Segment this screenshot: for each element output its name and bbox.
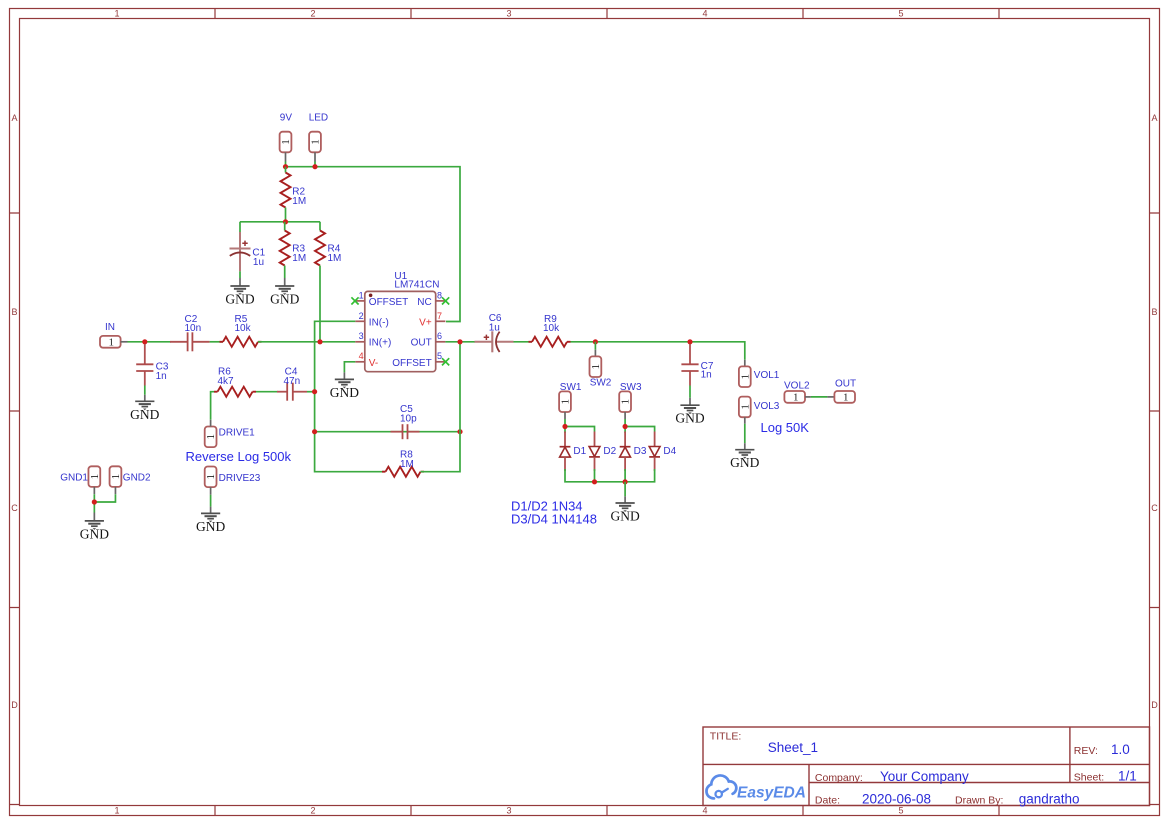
ground under GND1 xyxy=(80,521,109,542)
wire R9 to VOL1 corner xyxy=(571,342,745,360)
ground under R3 xyxy=(270,286,299,307)
svg-text:C: C xyxy=(11,503,18,513)
TITLE BLOCK xyxy=(703,727,1150,806)
wire C5 rail xyxy=(315,431,460,433)
resistor R5 10k xyxy=(220,314,262,347)
svg-text:1M: 1M xyxy=(400,459,414,470)
svg-text:Reverse Log 500k: Reverse Log 500k xyxy=(186,449,292,464)
wire bias rail C1 to R4 xyxy=(240,222,320,233)
svg-text:LED: LED xyxy=(309,112,328,123)
resistor R4 1M xyxy=(315,231,341,266)
connector GND1 xyxy=(60,466,101,494)
svg-text:B: B xyxy=(11,307,17,317)
capacitor C1 1u polarized xyxy=(230,232,266,271)
connector IN xyxy=(100,322,128,348)
svg-text:2020-06-08: 2020-06-08 xyxy=(862,791,931,806)
diode D4 1N4148 xyxy=(649,432,676,472)
junction GND1/GND2 xyxy=(92,499,97,504)
capacitor C6 1u polarized xyxy=(475,313,514,352)
connector OUT xyxy=(827,378,856,403)
svg-text:Date:: Date: xyxy=(815,794,840,806)
svg-text:DRIVE1: DRIVE1 xyxy=(219,427,256,438)
connector LED xyxy=(309,112,328,161)
svg-text:2: 2 xyxy=(310,806,315,816)
svg-text:4k7: 4k7 xyxy=(218,376,235,387)
svg-text:3: 3 xyxy=(359,331,364,341)
svg-text:D2: D2 xyxy=(603,446,616,457)
svg-text:10k: 10k xyxy=(543,323,560,334)
connector VOL1 xyxy=(739,360,780,387)
svg-text:Your Company: Your Company xyxy=(880,769,969,784)
svg-text:1: 1 xyxy=(114,806,119,816)
wire R6 to C4 xyxy=(256,391,278,393)
svg-text:1: 1 xyxy=(359,290,364,300)
wire C1 to ground xyxy=(239,271,241,286)
wire VOL3 to ground xyxy=(744,424,746,450)
svg-text:D3/D4 1N4148: D3/D4 1N4148 xyxy=(511,512,597,527)
svg-text:1M: 1M xyxy=(328,253,342,264)
capacitor C4 47n xyxy=(277,366,307,400)
svg-text:9V: 9V xyxy=(280,112,293,123)
svg-text:Drawn By:: Drawn By: xyxy=(955,794,1003,806)
junction IN node xyxy=(142,339,147,344)
ground under pin4 xyxy=(330,379,359,400)
connector SW3 xyxy=(619,382,642,419)
wire pin4 to ground xyxy=(344,362,355,380)
svg-text:1n: 1n xyxy=(701,370,712,381)
ground under VOL3 xyxy=(730,450,759,471)
diode D3 1N4148 xyxy=(620,432,647,472)
junction R4/IN+ xyxy=(317,339,322,344)
svg-text:Log 50K: Log 50K xyxy=(761,420,810,435)
svg-text:SW1: SW1 xyxy=(560,382,582,393)
svg-text:IN(+): IN(+) xyxy=(369,338,392,349)
resistor R8 1M xyxy=(382,450,424,477)
svg-text:OFFSET: OFFSET xyxy=(369,297,408,308)
svg-text:EasyEDA: EasyEDA xyxy=(737,785,806,802)
connector GND2 xyxy=(110,466,151,494)
svg-text:1M: 1M xyxy=(292,196,306,207)
no-connect X pin8 xyxy=(442,297,449,304)
wire 9V rail down through R2 xyxy=(285,167,287,173)
svg-text:10n: 10n xyxy=(185,323,202,334)
svg-text:DRIVE23: DRIVE23 xyxy=(219,473,261,484)
wire power rail from 9V/LED to V+ pin7 xyxy=(286,162,461,322)
wire DRIVE23 to ground xyxy=(210,495,212,514)
resistor R6 4k7 xyxy=(214,366,256,396)
no-connect X pin5 xyxy=(442,358,449,365)
ground under C3 xyxy=(130,401,159,422)
svg-text:1: 1 xyxy=(114,9,119,19)
wire C4 to inverting node xyxy=(307,391,315,393)
svg-text:REV:: REV: xyxy=(1074,745,1098,757)
svg-text:IN(-): IN(-) xyxy=(369,317,389,328)
wire R8 right to output riser xyxy=(421,342,461,472)
wire diodes to ground xyxy=(624,482,626,503)
diode D2 1N34 xyxy=(589,432,617,472)
svg-text:1M: 1M xyxy=(292,253,306,264)
svg-text:8: 8 xyxy=(437,290,442,300)
wire R4 down to IN+ rail xyxy=(319,266,321,342)
svg-text:D: D xyxy=(11,700,18,710)
svg-text:2: 2 xyxy=(359,311,364,321)
resistor R3 1M xyxy=(280,231,307,266)
junction C5 right xyxy=(457,429,462,434)
svg-text:GND1: GND1 xyxy=(60,473,88,484)
wire IN to C2 xyxy=(128,341,172,343)
wire pin2 to inverting feedback riser xyxy=(315,321,386,471)
capacitor C2 10n xyxy=(170,314,210,352)
svg-text:3: 3 xyxy=(506,9,511,19)
svg-text:2: 2 xyxy=(310,9,315,19)
capacitor C5 10p xyxy=(391,404,420,439)
svg-text:VOL3: VOL3 xyxy=(754,401,780,412)
svg-text:GND2: GND2 xyxy=(123,473,151,484)
junction D3 bottom xyxy=(623,479,628,484)
connector SW1 xyxy=(559,382,582,419)
wire bias to R3 xyxy=(284,222,286,231)
svg-text:LM741CN: LM741CN xyxy=(394,279,439,290)
svg-text:10p: 10p xyxy=(400,414,417,425)
junction bias rail xyxy=(283,219,288,224)
svg-text:V-: V- xyxy=(369,358,378,369)
svg-text:D: D xyxy=(1151,700,1158,710)
no-connect X pin1 xyxy=(351,297,358,304)
junction at LED rail xyxy=(312,164,317,169)
svg-text:4: 4 xyxy=(359,351,364,361)
junction C5 left xyxy=(312,429,317,434)
svg-text:1.0: 1.0 xyxy=(1111,742,1130,757)
ground under C7 xyxy=(675,405,704,426)
capacitor C7 1n xyxy=(681,344,713,386)
svg-text:A: A xyxy=(1151,113,1157,123)
svg-text:OUT: OUT xyxy=(835,378,856,389)
wire diode bottom rail xyxy=(565,469,655,482)
wire SW1 to D1/D2 pair xyxy=(565,419,595,433)
wire drive branch corner to DRIVE1 xyxy=(211,392,214,420)
connector VOL2 xyxy=(784,381,811,404)
capacitor C3 1n xyxy=(136,344,169,386)
svg-text:3: 3 xyxy=(506,806,511,816)
wire C3 to ground xyxy=(144,386,146,402)
wire GND1/GND2 to ground xyxy=(94,494,115,521)
wire R5 to IN+ pin3 xyxy=(258,341,355,343)
svg-text:SW2: SW2 xyxy=(590,378,612,389)
svg-text:VOL1: VOL1 xyxy=(754,370,780,381)
svg-text:Sheet_1: Sheet_1 xyxy=(768,740,818,755)
connector 9V xyxy=(280,112,293,161)
svg-text:4: 4 xyxy=(702,806,707,816)
svg-text:NC: NC xyxy=(417,297,431,308)
ground under C1 xyxy=(225,286,254,307)
svg-text:5: 5 xyxy=(437,351,442,361)
junction SW2 node xyxy=(593,339,598,344)
svg-text:OUT: OUT xyxy=(411,338,432,349)
junction D1 top xyxy=(562,424,567,429)
svg-text:IN: IN xyxy=(105,322,115,333)
wire pin6 OUT xyxy=(445,341,475,343)
svg-text:1n: 1n xyxy=(156,371,167,382)
svg-text:TITLE:: TITLE: xyxy=(710,731,742,743)
junction at 9V rail xyxy=(283,164,288,169)
junction D2 bottom xyxy=(592,479,597,484)
svg-text:7: 7 xyxy=(437,311,442,321)
wire C2 to R5 xyxy=(210,341,223,343)
svg-text:1u: 1u xyxy=(253,257,264,268)
wire C6 to R9 xyxy=(514,341,533,343)
svg-text:A: A xyxy=(11,113,17,123)
diode D1 1N34 xyxy=(560,432,587,472)
connector VOL3 xyxy=(739,397,780,424)
svg-text:10k: 10k xyxy=(235,323,252,334)
svg-text:D4: D4 xyxy=(663,446,676,457)
svg-text:Sheet:: Sheet: xyxy=(1074,772,1104,784)
junction C4 node xyxy=(312,389,317,394)
svg-text:5: 5 xyxy=(898,806,903,816)
junction C7 node xyxy=(687,339,692,344)
wire C7 to ground xyxy=(689,386,691,406)
ground under DRIVE23 xyxy=(196,513,225,534)
svg-text:SW3: SW3 xyxy=(620,382,642,393)
svg-text:B: B xyxy=(1151,307,1157,317)
svg-text:1/1: 1/1 xyxy=(1118,769,1137,784)
svg-text:C: C xyxy=(1151,503,1158,513)
wire R2 bottom to bias rail xyxy=(285,208,287,222)
svg-text:V+: V+ xyxy=(419,317,432,328)
svg-text:4: 4 xyxy=(702,9,707,19)
junction OUT node xyxy=(457,339,462,344)
junction D3 top xyxy=(623,424,628,429)
wire SW3 to D3/D4 pair xyxy=(625,419,655,433)
wire VOL2 to OUT xyxy=(811,396,828,398)
connector DRIVE23 xyxy=(205,467,261,495)
svg-text:5: 5 xyxy=(898,9,903,19)
svg-text:Company:: Company: xyxy=(815,772,863,784)
svg-text:D1: D1 xyxy=(573,446,586,457)
resistor R9 10k xyxy=(529,314,571,347)
op-amp U1 LM741CN xyxy=(355,271,445,372)
connector DRIVE1 xyxy=(205,420,255,447)
ground under diodes xyxy=(610,503,639,524)
wire R3 to ground xyxy=(284,266,286,287)
resistor R2 1M xyxy=(281,173,307,208)
svg-text:VOL2: VOL2 xyxy=(784,381,810,392)
svg-text:D3: D3 xyxy=(634,446,647,457)
svg-text:gandratho: gandratho xyxy=(1019,791,1080,806)
svg-text:OFFSET: OFFSET xyxy=(392,358,431,369)
connector SW2 xyxy=(590,342,612,389)
svg-text:1u: 1u xyxy=(489,323,500,334)
svg-text:6: 6 xyxy=(437,331,442,341)
svg-text:47n: 47n xyxy=(284,376,301,387)
